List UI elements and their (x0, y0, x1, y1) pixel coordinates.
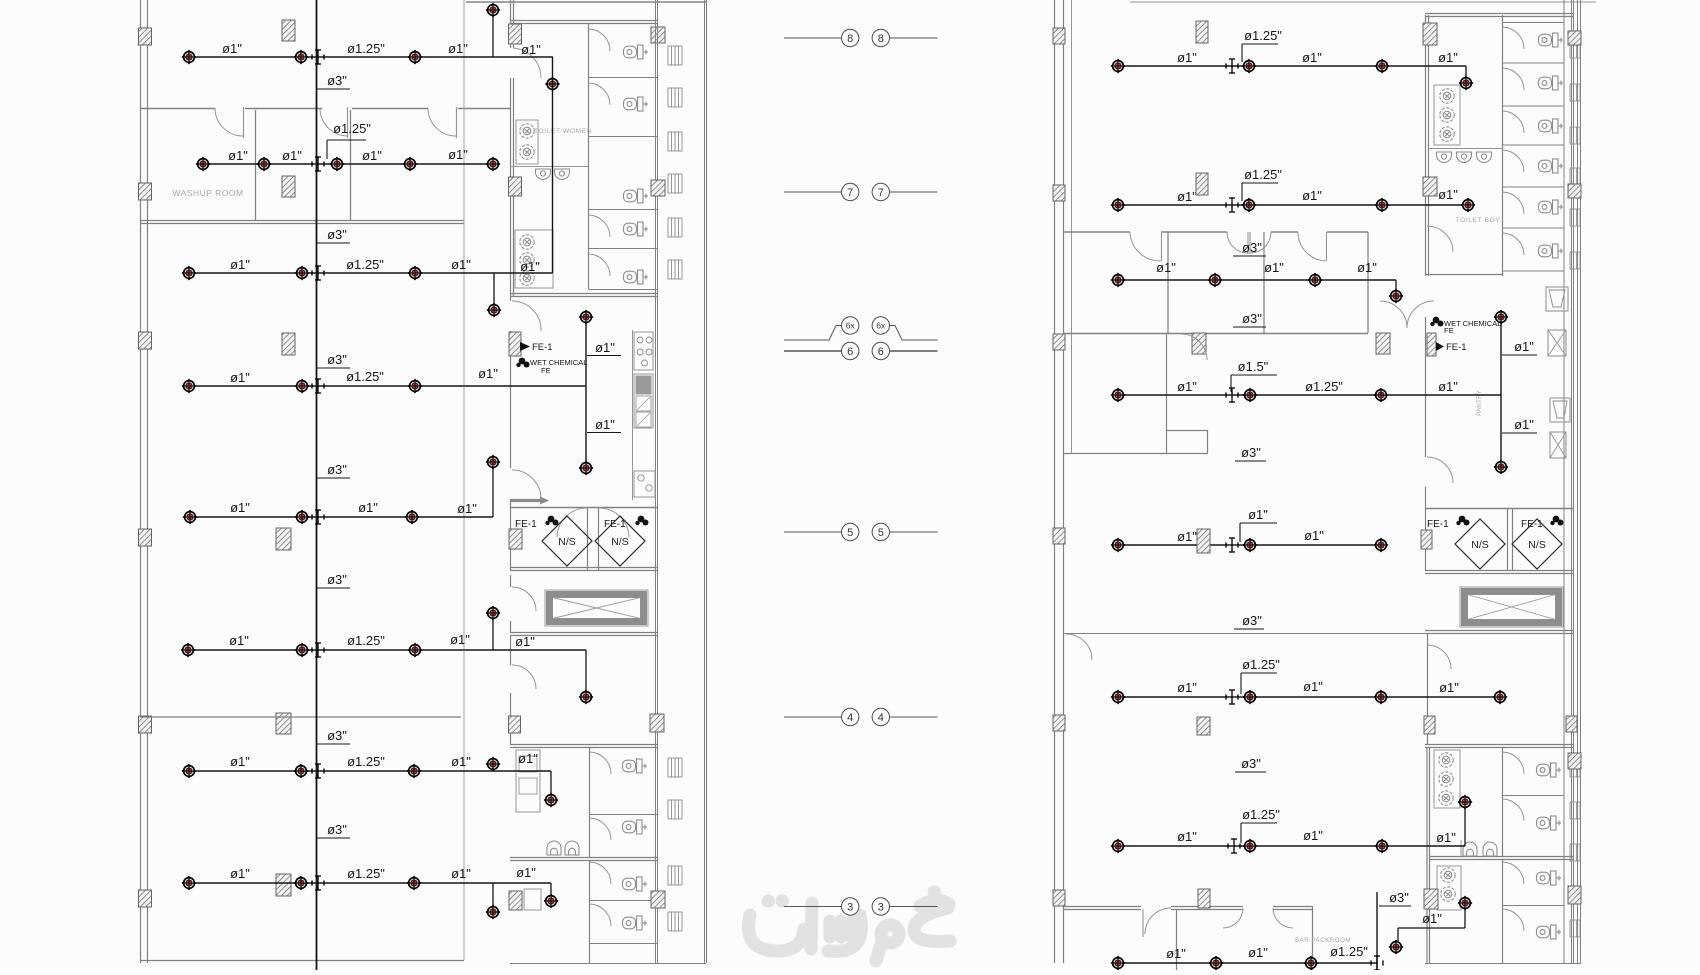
partition x1166 low (1166, 333, 1168, 453)
basin wall (510, 166, 588, 168)
wall y717 (140, 716, 461, 718)
top crop line (466, 1, 706, 3)
sprinkler (407, 764, 421, 778)
toilet (1537, 816, 1562, 830)
wall y632 (510, 632, 657, 634)
double door arc L (1380, 301, 1407, 328)
column (282, 176, 295, 197)
svg-text:7: 7 (847, 187, 853, 199)
svg-text:ø1": ø1" (1303, 679, 1323, 694)
column (509, 332, 521, 356)
column (1053, 528, 1065, 544)
B7 drop (550, 771, 552, 794)
svg-text:ø1": ø1" (1438, 50, 1458, 65)
wash basin (1439, 791, 1453, 805)
watermark (749, 892, 950, 961)
svg-text:ø3": ø3" (1241, 445, 1261, 460)
column (1423, 177, 1437, 196)
sprinkler (294, 876, 308, 890)
counter (634, 374, 653, 428)
partition x255 (255, 110, 257, 221)
grid bubble 4 (842, 708, 859, 725)
door leaf (243, 107, 245, 138)
svg-text:ø1": ø1" (1439, 680, 1459, 695)
stall partition right y187 (1503, 186, 1565, 188)
wall y232 b (1161, 231, 1227, 233)
ø3 underline 2 (317, 242, 350, 244)
sprinkler (1209, 956, 1223, 970)
stall wall lower right 2 (1502, 860, 1504, 963)
column (1424, 716, 1435, 734)
box 2 (1550, 432, 1566, 458)
vent (1570, 844, 1580, 861)
N/S damper (1512, 519, 1562, 569)
kitchen door arc bottom (512, 470, 541, 500)
svg-text:ø3": ø3" (327, 462, 347, 477)
svg-text:ø1.25": ø1.25" (347, 633, 385, 648)
column (509, 529, 522, 549)
toilet block west wall (1425, 15, 1427, 276)
grid bubble 6x (842, 317, 859, 334)
toilet (1539, 119, 1564, 133)
sprinkler bath2 (1458, 896, 1472, 910)
NS door arc L (557, 508, 586, 537)
wall x1207 (1207, 430, 1209, 453)
wash basin (1440, 127, 1454, 141)
bath west wall lower right (1426, 748, 1428, 963)
svg-text:ø1": ø1" (1304, 528, 1324, 543)
toilet block top wall (1425, 13, 1573, 15)
door (1503, 68, 1525, 90)
column (1196, 21, 1208, 43)
sprinkler (1458, 795, 1472, 809)
stall partition y248.5 (589, 248, 658, 250)
svg-text:ø1.25": ø1.25" (1244, 28, 1282, 43)
svg-text:ø1": ø1" (1438, 379, 1458, 394)
door arc (215, 108, 243, 136)
door leaf x1143 (1142, 909, 1144, 937)
B1 stub up (492, 10, 494, 57)
svg-text:ø1": ø1" (1166, 946, 1186, 961)
sprinkler (182, 50, 196, 64)
svg-text:ø1": ø1" (1177, 529, 1197, 544)
column (509, 24, 522, 44)
column (1053, 28, 1065, 44)
column (1423, 23, 1437, 45)
svg-text:ø1": ø1" (450, 632, 470, 647)
toilet (624, 189, 649, 203)
door (1427, 645, 1451, 669)
fitting (1226, 198, 1238, 212)
sprinkler (408, 266, 422, 280)
column (1427, 333, 1436, 356)
bath west wall x510 b (510, 78, 512, 296)
mop sink unit (1434, 85, 1460, 145)
sprinkler (579, 461, 593, 475)
wall y744 right (1425, 744, 1573, 746)
hand basin (1437, 152, 1452, 163)
grid bubble 5 (842, 523, 859, 540)
svg-text:ø1": ø1" (451, 866, 471, 881)
corridor wall y633 (1064, 633, 1425, 635)
svg-text:7: 7 (878, 187, 884, 199)
urinal (1463, 842, 1477, 856)
corner sink 2 (1550, 398, 1570, 422)
door leaf (456, 107, 458, 138)
sprinkler (182, 876, 196, 890)
wall y220 (140, 220, 464, 222)
hand basin (1457, 152, 1472, 163)
sprinkler (1493, 690, 1507, 704)
wall y960 (140, 960, 464, 962)
stall partition y136.5 (589, 136, 658, 138)
svg-text:ø3": ø3" (1241, 756, 1261, 771)
toilet (1539, 33, 1564, 47)
sprinkler (1243, 538, 1257, 552)
toilet (623, 820, 648, 834)
FE-1 arrow right (1436, 342, 1444, 351)
svg-text:ø1": ø1" (1177, 379, 1197, 394)
svg-text:ø1": ø1" (230, 257, 250, 272)
column (282, 333, 295, 355)
sprinkler (1375, 59, 1389, 73)
sprinkler (1242, 198, 1256, 212)
NS top wall right (1425, 508, 1573, 510)
toilet (624, 222, 649, 236)
svg-text:ø1": ø1" (1248, 507, 1268, 522)
column (1197, 717, 1210, 735)
door (1503, 799, 1525, 821)
branch B3 (189, 272, 553, 274)
ø3 underline R2 (1233, 326, 1266, 328)
door arc (320, 108, 348, 136)
vent (668, 800, 682, 819)
svg-text:3: 3 (878, 901, 884, 913)
toilet (1539, 159, 1564, 173)
svg-text:6x: 6x (846, 321, 856, 331)
vent (1570, 127, 1580, 144)
svg-text:TOILET WOMEN: TOILET WOMEN (534, 128, 592, 135)
NS bottom right (1425, 570, 1573, 572)
svg-text:ø1": ø1" (1248, 945, 1268, 960)
branch B7R (1118, 845, 1465, 847)
svg-text:FE-1: FE-1 (1446, 342, 1467, 353)
sprinkler (486, 3, 500, 17)
sink unit (516, 750, 540, 812)
kitchen drop pipe (585, 317, 587, 468)
B5 stub up (492, 462, 494, 517)
column (1424, 889, 1438, 909)
toilet (1539, 244, 1564, 258)
wall y906 b (1171, 906, 1243, 908)
branch B4 (189, 385, 586, 387)
grid line 6 left (784, 350, 841, 352)
wall y906 c (1273, 906, 1312, 908)
sprinkler (1111, 388, 1125, 402)
svg-text:ø1": ø1" (595, 340, 615, 355)
elevator (1460, 587, 1563, 627)
fitting (312, 764, 324, 778)
fitting (312, 876, 324, 890)
urinal wall y857 (510, 857, 657, 859)
sprinkler (486, 905, 500, 919)
mop unit lower 2 (1437, 866, 1461, 910)
FE-1 arrow (520, 342, 530, 351)
sprinkler (1459, 76, 1473, 90)
sprinkler (486, 157, 500, 171)
stall wall x1502 (1502, 15, 1504, 276)
wall y108 seg1 (140, 108, 215, 110)
main riser 3in (316, 0, 318, 970)
column (1421, 530, 1432, 549)
door (1145, 908, 1171, 934)
toilet (624, 45, 649, 59)
svg-text:ø1.25": ø1.25" (1242, 657, 1280, 672)
partition x1264 (1263, 232, 1265, 333)
sprinkler (545, 77, 559, 91)
grid line 4 right (890, 716, 938, 718)
svg-text:ø1": ø1" (521, 42, 541, 57)
svg-text:ø1.25": ø1.25" (346, 257, 384, 272)
wash basin (1439, 772, 1453, 786)
grid line 6x left (784, 326, 842, 341)
sprinkler (544, 793, 558, 807)
partition x1368 (1367, 232, 1369, 333)
branch B4R (1118, 394, 1501, 396)
sprinkler (1243, 388, 1257, 402)
grid bubble 3 (872, 898, 889, 915)
door (1503, 909, 1525, 931)
branch B5 (190, 516, 493, 518)
svg-text:ø1": ø1" (229, 633, 249, 648)
wall y430 (1166, 430, 1208, 432)
sprinkler (1308, 273, 1322, 287)
svg-text:WET CHEMICAL: WET CHEMICAL (530, 358, 587, 367)
FE icon (516, 358, 529, 368)
door (1503, 111, 1525, 133)
bottom branch right (1118, 962, 1377, 964)
sprinkler (182, 379, 196, 393)
B8 drop (550, 883, 552, 895)
svg-text:FE-1: FE-1 (532, 342, 553, 353)
stall partition right y228 (1503, 227, 1565, 229)
NS partition (587, 507, 589, 571)
wash basin (520, 271, 534, 285)
svg-text:ø1": ø1" (228, 148, 248, 163)
grid bubble 3 (842, 898, 859, 915)
grid bubble 5 (872, 523, 889, 540)
door (589, 254, 611, 276)
sprinkler (330, 157, 344, 171)
door arc 1 (1130, 232, 1161, 261)
partition y795 (1503, 795, 1565, 797)
column (139, 183, 152, 200)
svg-text:FE: FE (541, 366, 551, 375)
svg-text:PANTRY: PANTRY (1476, 389, 1483, 415)
sink2 (636, 412, 651, 427)
kitchen top wall (510, 293, 657, 295)
sprinkler (1389, 940, 1403, 954)
column (1568, 31, 1581, 45)
wall y333 (1063, 333, 1368, 335)
vanity counter (516, 120, 538, 164)
partition y900 (590, 900, 658, 902)
urinal (565, 841, 579, 855)
column (651, 891, 665, 908)
svg-text:ø1": ø1" (520, 259, 540, 274)
svg-text:ø1": ø1" (1514, 339, 1534, 354)
NS door arc R (600, 508, 629, 537)
branch B6R (1118, 696, 1500, 698)
urinal screen (1460, 840, 1462, 856)
sprinkler (1111, 273, 1125, 287)
sprinkler (1375, 198, 1389, 212)
toilet (623, 759, 648, 773)
vent (1570, 84, 1580, 101)
right wing west wall (1054, 0, 1056, 963)
branch B7 (189, 770, 551, 772)
ø3 underline 5 (317, 587, 350, 589)
bath top wall (510, 20, 657, 22)
grid bubble 6 (842, 342, 859, 359)
vent (668, 132, 682, 151)
sprinkler (1111, 59, 1125, 73)
sprinkler (407, 876, 421, 890)
sprinkler (408, 643, 422, 657)
svg-text:ø1": ø1" (1156, 260, 1176, 275)
svg-text:ø1.25": ø1.25" (1242, 807, 1280, 822)
sprinkler (294, 764, 308, 778)
svg-text:ø1": ø1" (1436, 830, 1456, 845)
partition y905 (1503, 905, 1565, 907)
door arc (428, 108, 456, 136)
svg-text:ø1": ø1" (478, 366, 498, 381)
vent (668, 912, 682, 931)
stall partition right y271 (1503, 270, 1565, 272)
door (1503, 192, 1525, 214)
door (589, 83, 611, 105)
elev west wall (510, 621, 512, 632)
door arc room low (1181, 334, 1207, 360)
B7 stub (492, 766, 494, 771)
sprinkler (1111, 839, 1125, 853)
svg-text:ø3": ø3" (1242, 311, 1262, 326)
branch B2R (1118, 204, 1468, 206)
fitting (312, 266, 324, 280)
column (139, 529, 152, 546)
stall wall x588 (588, 23, 590, 289)
grid line 3 left (784, 906, 841, 908)
door (590, 904, 612, 926)
sprinkler (1461, 198, 1475, 212)
sprinkler (486, 757, 500, 771)
branch B1 (189, 56, 553, 58)
svg-text:ø1": ø1" (451, 754, 471, 769)
vent (668, 260, 682, 279)
column (1198, 889, 1210, 908)
sprinkler (579, 690, 593, 704)
column (651, 180, 665, 196)
svg-text:ø1": ø1" (1177, 829, 1197, 844)
door arc 2b (1250, 232, 1271, 253)
svg-text:ø1": ø1" (448, 41, 468, 56)
bottom crop right (1425, 963, 1581, 965)
grid line 8 right (890, 37, 938, 39)
svg-text:FE-1: FE-1 (515, 519, 537, 530)
vent (1570, 168, 1580, 185)
kitchen west wall (510, 331, 512, 468)
wash basin (1441, 887, 1455, 901)
hand basin (536, 169, 551, 180)
toilet (624, 270, 649, 284)
door (1503, 752, 1525, 774)
hand basin (1477, 152, 1492, 163)
svg-text:ø1": ø1" (358, 500, 378, 515)
wash unit lower anteroom (515, 230, 553, 288)
svg-text:6: 6 (847, 346, 853, 358)
stall partition y77.5 (589, 77, 658, 79)
sprinkler (405, 510, 419, 524)
branch B1R (1118, 65, 1466, 67)
bath west wall x510 a (510, 0, 512, 48)
column (1053, 890, 1065, 906)
urinal (547, 841, 561, 855)
vent (1570, 802, 1580, 819)
ø3 underline R4 (1234, 628, 1264, 630)
column (139, 716, 152, 733)
door arc toilet boy (1427, 226, 1453, 252)
sprinkler (294, 50, 308, 64)
ø3 underline R1 (1233, 255, 1266, 257)
box 1 (1548, 330, 1566, 356)
wall y744 (510, 744, 657, 746)
ø3 underline riser (1379, 905, 1411, 907)
column (1566, 716, 1577, 732)
stall partition right y63 (1503, 62, 1565, 64)
svg-text:ø1.25": ø1.25" (333, 121, 371, 136)
svg-text:ø1.25": ø1.25" (1244, 167, 1282, 182)
svg-text:ø1.25": ø1.25" (347, 754, 385, 769)
sprinkler (1243, 839, 1257, 853)
svg-text:ø1.25": ø1.25" (1330, 944, 1368, 959)
svg-text:ø3": ø3" (327, 728, 347, 743)
wall y630 right (1425, 630, 1573, 632)
panel (636, 376, 651, 394)
svg-text:4: 4 (847, 712, 853, 724)
NS partition right (1507, 508, 1509, 571)
grid bubble 6x (872, 317, 889, 334)
B6 stub up (492, 613, 494, 650)
B3R drop (1395, 280, 1397, 290)
svg-text:ø3": ø3" (327, 822, 347, 837)
svg-text:3: 3 (847, 901, 853, 913)
toilet (1537, 871, 1562, 885)
sprinkler (408, 50, 422, 64)
fitting (1226, 690, 1238, 704)
svg-text:ø3": ø3" (1242, 240, 1262, 255)
vent (668, 218, 682, 237)
grid bubble 8 (842, 29, 859, 46)
column (139, 332, 152, 349)
toilet (624, 97, 649, 111)
stall wall lower2 (589, 860, 591, 963)
sprinkler (1304, 956, 1318, 970)
grid line 6x right (890, 326, 938, 341)
column (1568, 886, 1581, 904)
svg-text:8: 8 (878, 33, 884, 45)
sprinkler (1111, 690, 1125, 704)
column (1197, 529, 1210, 553)
